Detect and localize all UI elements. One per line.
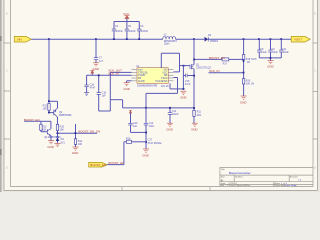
svg-text:BOOST_EN: BOOST_EN — [209, 56, 225, 60]
svg-text:47nF 250Vac: 47nF 250Vac — [148, 142, 163, 145]
svg-text:D: D — [314, 166, 316, 170]
svg-text:BOOST_EN: BOOST_EN — [24, 118, 40, 122]
svg-text:SCK_IN: SCK_IN — [209, 69, 219, 73]
svg-text:GND: GND — [72, 151, 78, 155]
svg-text:LM3481MM/NOPB: LM3481MM/NOPB — [137, 85, 157, 88]
svg-text:100n: 100n — [149, 125, 155, 128]
svg-text:GND: GND — [142, 154, 148, 158]
svg-text:0R1: 0R1 — [197, 114, 202, 117]
svg-text:47nF: 47nF — [90, 86, 96, 89]
svg-text:5V1: 5V1 — [61, 141, 66, 144]
svg-text:VCC: VCC — [123, 12, 129, 16]
svg-text:PGATE/SD: PGATE/SD — [155, 80, 167, 83]
svg-text:1uF: 1uF — [133, 125, 138, 128]
svg-text:10K: 10K — [43, 108, 48, 111]
svg-text:SCK_IN: SCK_IN — [108, 72, 118, 76]
svg-text:AUXD: AUXD — [138, 80, 145, 83]
svg-text:10uF: 10uF — [273, 51, 279, 54]
svg-text:10uH: 10uH — [164, 42, 170, 45]
svg-text:C:\Users\..\Boost.SchDoc: C:\Users\..\Boost.SchDoc — [227, 184, 251, 187]
svg-text:Gaurav Judge: Gaurav Judge — [284, 184, 298, 187]
svg-text:MMBT3906: MMBT3906 — [59, 114, 72, 117]
svg-text:4u7: 4u7 — [99, 60, 104, 63]
svg-text:VOUT: VOUT — [294, 37, 302, 41]
svg-text:10K: 10K — [42, 129, 47, 132]
svg-text:100nF: 100nF — [172, 113, 179, 116]
svg-text:GND: GND — [47, 145, 53, 149]
svg-text:100nF: 100nF — [116, 30, 123, 33]
svg-text:Q4 MMBT3904: Q4 MMBT3904 — [44, 136, 61, 139]
svg-text:R16: R16 — [126, 138, 131, 141]
svg-text:File:: File: — [221, 185, 225, 187]
svg-text:VIN: VIN — [17, 37, 22, 41]
svg-text:BOOST_EN: BOOST_EN — [109, 161, 125, 165]
svg-text:12V 2A: 12V 2A — [161, 85, 169, 88]
svg-text:100nF: 100nF — [141, 30, 148, 33]
svg-text:BOOST_EN_ON: BOOST_EN_ON — [79, 129, 101, 133]
svg-text:GND: GND — [123, 87, 129, 91]
svg-text:Revision: Revision — [290, 177, 299, 179]
svg-text:D: D — [6, 166, 8, 170]
svg-text:Number: Number — [235, 176, 243, 179]
svg-text:C: C — [314, 69, 316, 73]
svg-text:10K: 10K — [78, 143, 83, 146]
svg-text:B: B — [6, 12, 8, 16]
svg-text:10uF: 10uF — [283, 51, 289, 54]
svg-text:GND: GND — [166, 127, 172, 131]
svg-text:Boost Converter: Boost Converter — [229, 171, 251, 175]
svg-text:10K: 10K — [60, 129, 65, 132]
svg-text:1uF: 1uF — [102, 94, 107, 97]
svg-text:C: C — [6, 69, 8, 73]
svg-text:R17: R17 — [223, 63, 228, 66]
svg-text:47nF: 47nF — [185, 83, 191, 86]
svg-text:GND: GND — [191, 127, 197, 131]
svg-text:BOOST_EN: BOOST_EN — [90, 163, 106, 167]
svg-text:GND: GND — [267, 64, 273, 68]
svg-text:1N5819: 1N5819 — [210, 40, 219, 43]
svg-text:10uF: 10uF — [261, 51, 267, 54]
svg-text:GND: GND — [180, 95, 186, 99]
svg-text:100nF: 100nF — [129, 30, 136, 33]
svg-text:GND: GND — [240, 101, 246, 105]
svg-text:B: B — [314, 12, 316, 16]
svg-text:10K 1%: 10K 1% — [246, 83, 255, 86]
